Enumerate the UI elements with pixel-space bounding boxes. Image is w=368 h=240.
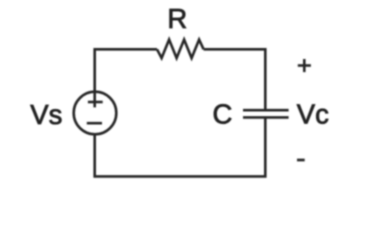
capacitor C top plate (243, 109, 289, 112)
voltage source minus mark (87, 122, 102, 125)
svg-text:Vc: Vc (297, 99, 329, 130)
label Vc (297, 99, 329, 130)
polarity minus sign for Vc (297, 159, 305, 162)
polarity plus sign for Vc (298, 59, 311, 72)
wire: top-left segment and left upper vertical into source plus terminal (95, 49, 157, 107)
label R (167, 3, 187, 34)
resistor R zigzag (157, 40, 204, 58)
wire: top-right segment and right upper vertical to capacitor top plate (204, 49, 266, 110)
label C (213, 98, 233, 129)
capacitor C bottom plate (243, 116, 289, 119)
svg-text:C: C (213, 98, 233, 129)
label Vs (30, 99, 62, 130)
svg-text:Vs: Vs (30, 99, 62, 130)
svg-text:R: R (167, 3, 187, 34)
voltage source plus mark horizontal bar (88, 101, 103, 104)
voltage source Vs circle (74, 92, 117, 135)
wire: left lower vertical, bottom horizontal, right lower vertical (95, 117, 266, 176)
